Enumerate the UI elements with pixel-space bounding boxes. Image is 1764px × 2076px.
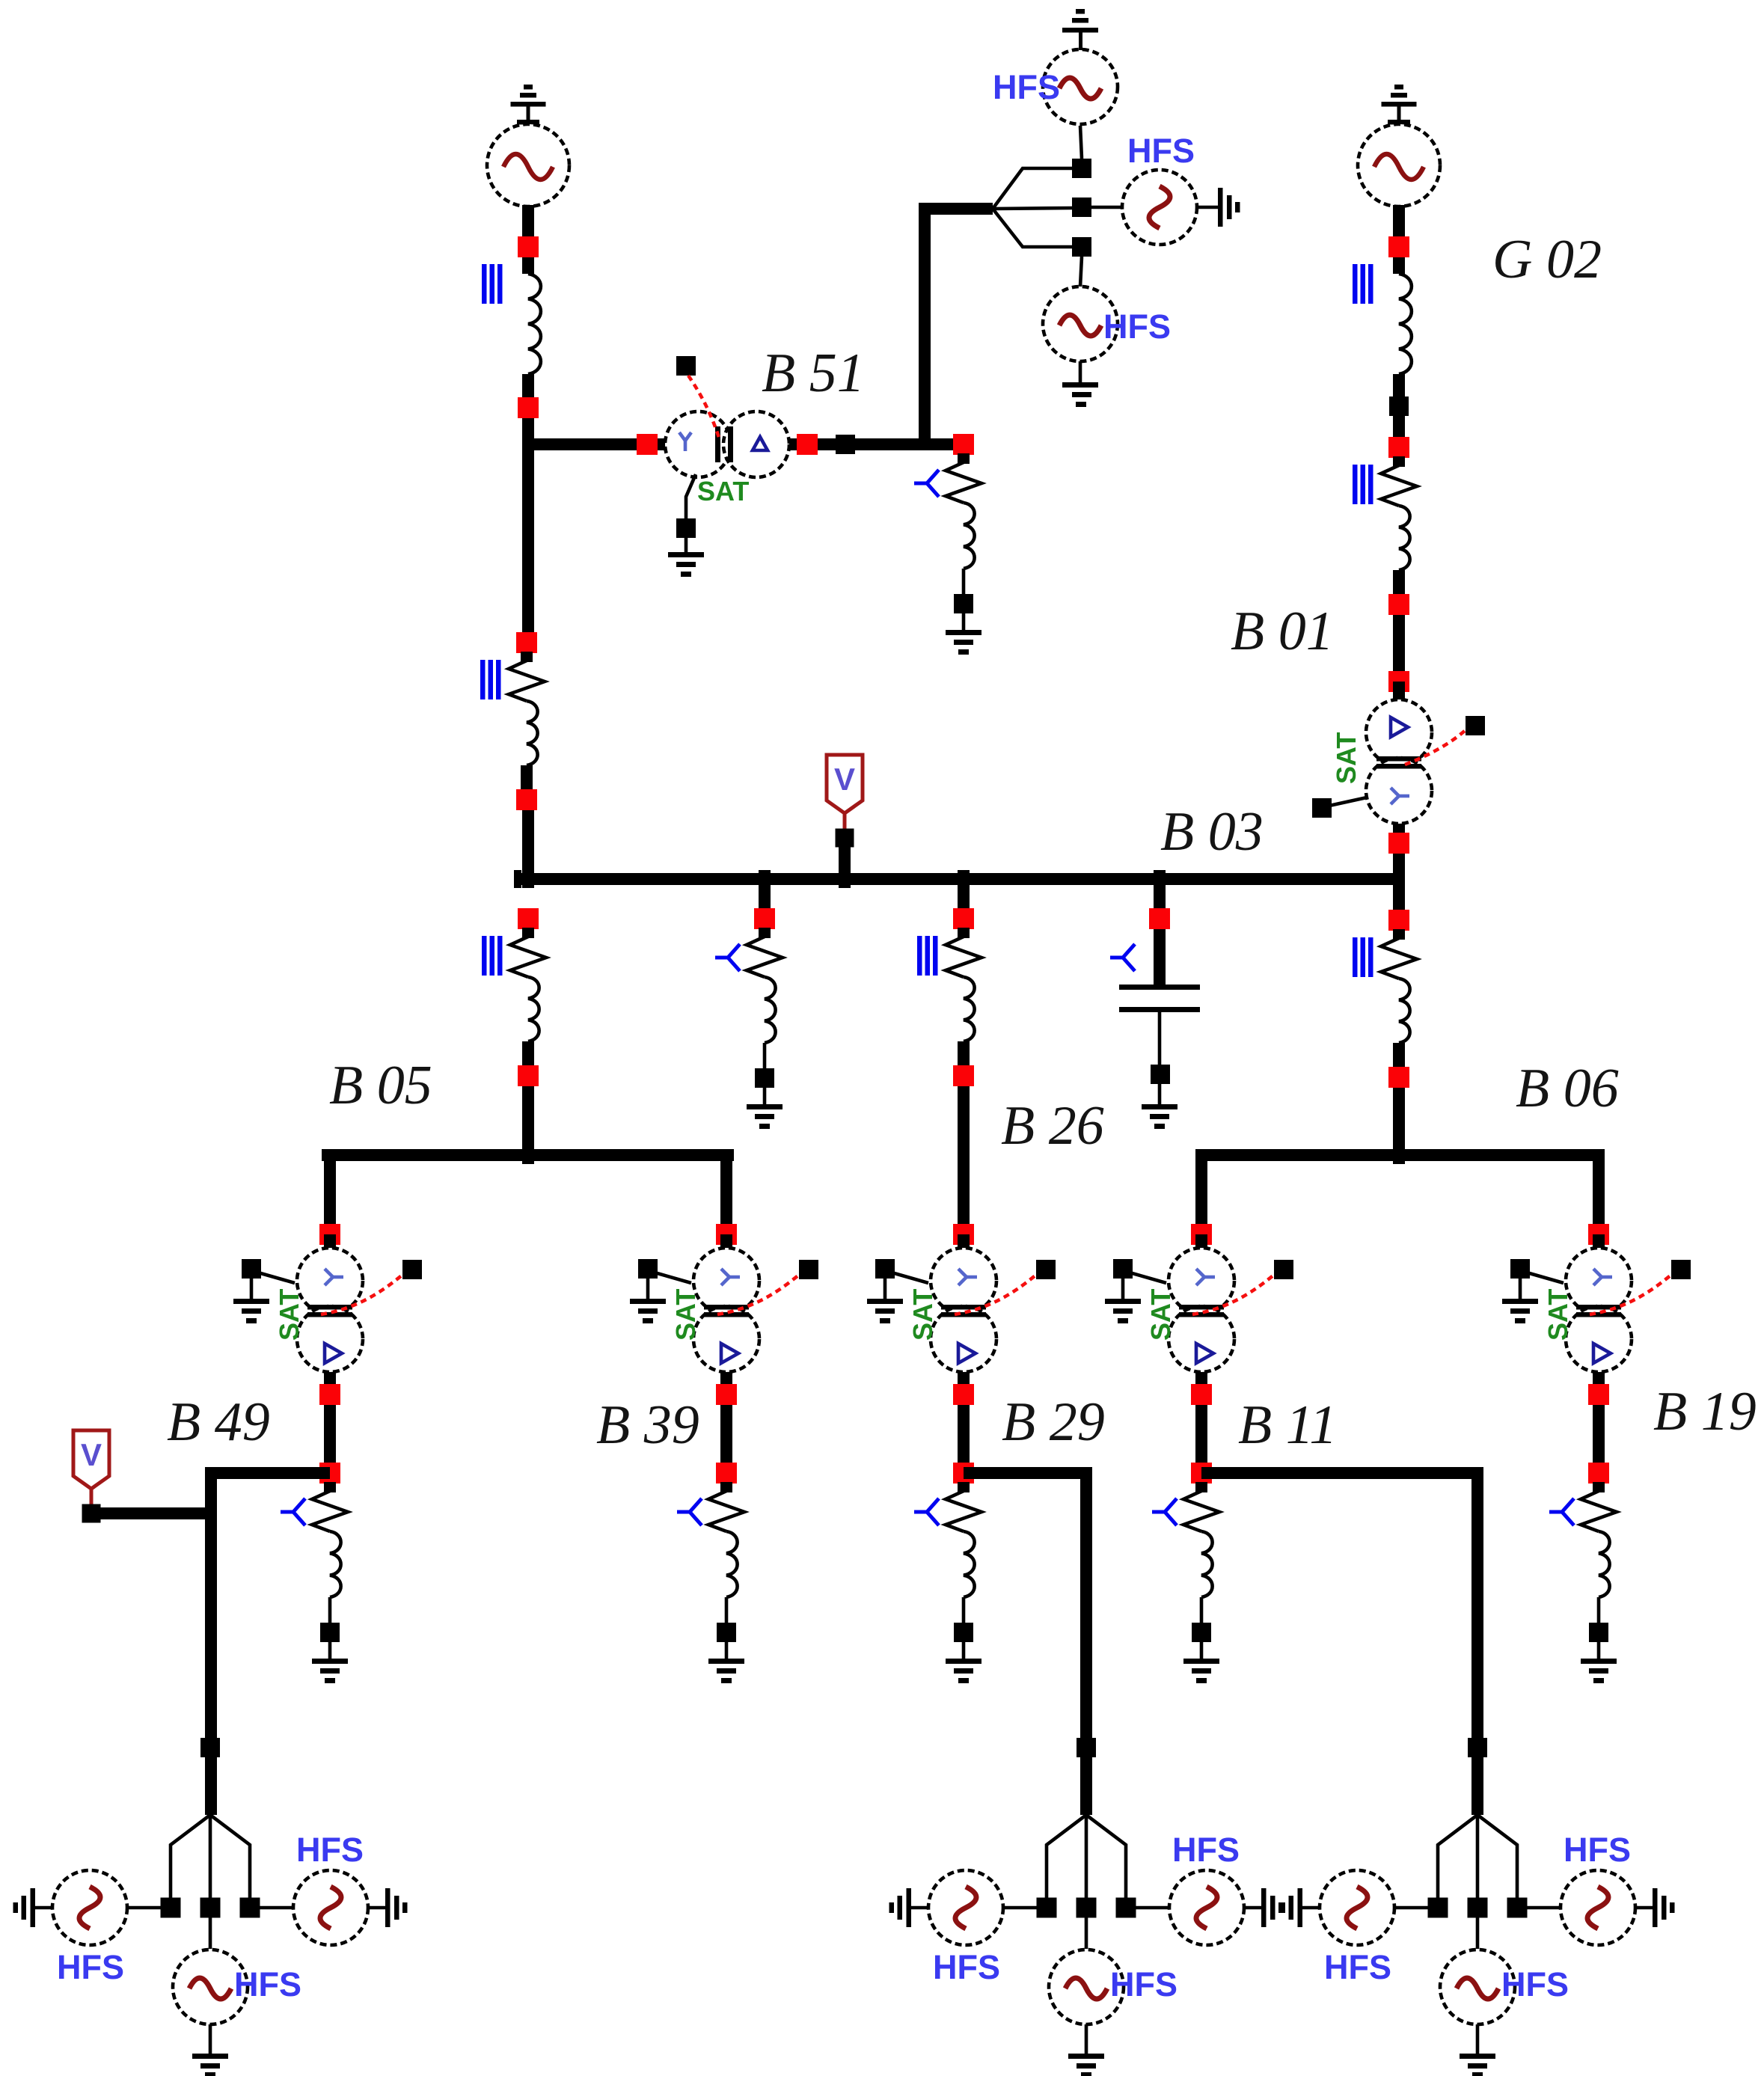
svg-text:HFS: HFS	[1564, 1831, 1631, 1869]
svg-text:B 19: B 19	[1653, 1381, 1757, 1442]
svg-text:HFS: HFS	[1172, 1831, 1240, 1869]
svg-text:B 03: B 03	[1160, 801, 1264, 863]
svg-text:SAT: SAT	[1145, 1289, 1176, 1341]
svg-text:B 11: B 11	[1238, 1394, 1337, 1456]
svg-text:B 39: B 39	[596, 1394, 699, 1456]
svg-text:HFS: HFS	[1127, 132, 1195, 170]
svg-text:SAT: SAT	[670, 1289, 701, 1341]
svg-text:SAT: SAT	[1331, 732, 1362, 784]
svg-text:B 01: B 01	[1231, 601, 1334, 662]
svg-text:HFS: HFS	[1110, 1965, 1177, 2003]
svg-text:HFS: HFS	[1324, 1948, 1391, 1986]
svg-text:B 51: B 51	[762, 343, 865, 404]
svg-text:SAT: SAT	[697, 476, 749, 506]
svg-text:SAT: SAT	[1543, 1289, 1573, 1341]
svg-text:SAT: SAT	[274, 1289, 304, 1341]
svg-text:HFS: HFS	[234, 1965, 301, 2003]
svg-text:B 49: B 49	[167, 1391, 270, 1453]
svg-text:G 02: G 02	[1492, 229, 1602, 290]
svg-text:B 29: B 29	[1002, 1391, 1105, 1453]
svg-text:HFS: HFS	[296, 1831, 364, 1869]
svg-text:HFS: HFS	[1103, 307, 1171, 346]
svg-text:B 05: B 05	[329, 1055, 432, 1116]
svg-text:HFS: HFS	[57, 1948, 124, 1986]
svg-text:V: V	[81, 1437, 102, 1472]
svg-text:HFS: HFS	[1501, 1965, 1569, 2003]
svg-text:SAT: SAT	[907, 1289, 938, 1341]
svg-text:HFS: HFS	[933, 1948, 1000, 1986]
svg-text:B 06: B 06	[1516, 1058, 1619, 1119]
svg-text:HFS: HFS	[993, 68, 1060, 106]
svg-text:B 26: B 26	[1001, 1095, 1104, 1157]
svg-text:V: V	[834, 762, 855, 797]
